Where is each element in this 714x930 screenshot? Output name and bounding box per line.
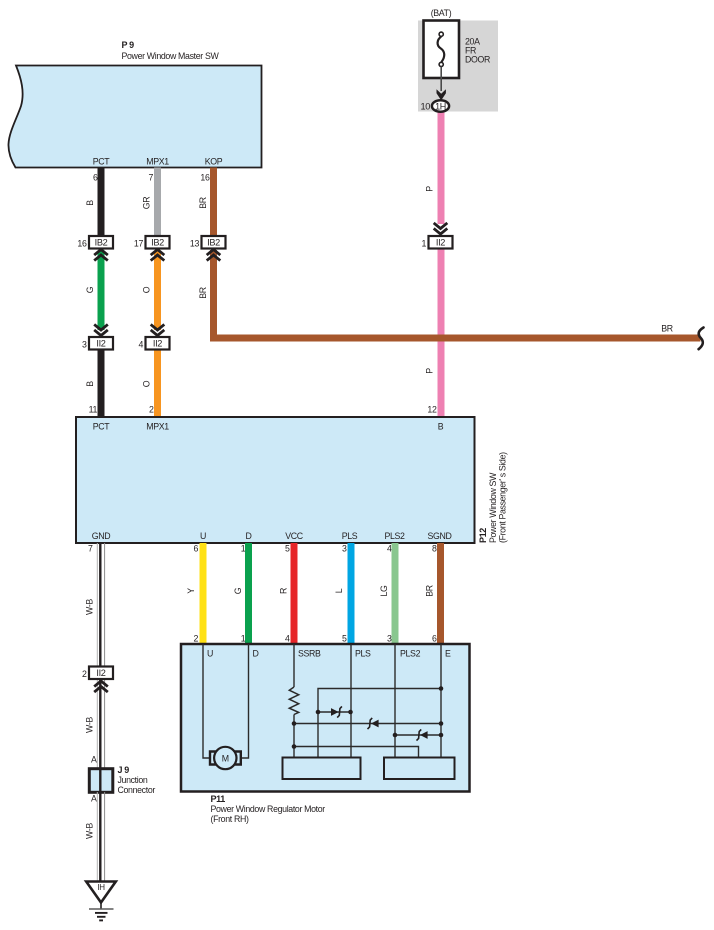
wire L blue P12 PLS to P11 PLS [348, 543, 355, 644]
svg-text:A: A [91, 794, 97, 804]
junction dot SSRB row4 [292, 744, 297, 749]
svg-text:1H: 1H [435, 101, 446, 111]
connector arrows (down chevrons) above II2 pin3 [94, 324, 108, 335]
svg-text:II2: II2 [96, 668, 105, 678]
junction dot E top [439, 686, 444, 691]
svg-text:G: G [85, 286, 95, 293]
resistor in SSRB branch [289, 687, 298, 715]
motor bracket left [210, 752, 217, 765]
svg-text:U: U [207, 649, 213, 659]
internal wire U to motor [203, 644, 210, 758]
svg-text:BR: BR [661, 324, 673, 334]
junction connector J9 box [89, 769, 113, 793]
wire BR brown P12 SGND to P11 E [437, 543, 444, 644]
svg-text:A: A [91, 755, 97, 765]
svg-text:6: 6 [193, 544, 198, 554]
svg-text:B: B [85, 200, 95, 206]
wire G green IB2 to II2 [98, 251, 105, 330]
svg-text:4: 4 [285, 634, 290, 644]
svg-text:DOOR: DOOR [465, 55, 490, 65]
internal wire E vertical [440, 644, 442, 758]
svg-text:3: 3 [387, 634, 392, 644]
junction dot diode1 right on PLS [348, 710, 353, 715]
diode D1 (zener, pointing right) [331, 706, 342, 717]
diode D3 (zener, pointing left) [417, 729, 428, 740]
motor bracket right [234, 752, 241, 765]
svg-text:MPX1: MPX1 [146, 157, 169, 167]
component P12 Power Window SW block [76, 417, 475, 543]
svg-text:E: E [445, 649, 451, 659]
svg-text:O: O [142, 380, 152, 387]
internal wire D to motor [241, 644, 249, 758]
wire G green P12 D to P11 D [245, 543, 252, 644]
fuse element S-curve [438, 37, 445, 63]
internal wire SSRB down to resistor [293, 644, 295, 687]
internal wire diode1 row [318, 711, 351, 713]
svg-text:4: 4 [387, 544, 392, 554]
connector arrows (up chevrons) below IB2 pin16 [94, 250, 108, 261]
svg-text:BR: BR [198, 197, 208, 209]
svg-text:O: O [142, 286, 152, 293]
svg-text:MPX1: MPX1 [146, 422, 169, 432]
svg-text:D: D [245, 531, 251, 541]
svg-text:W-B: W-B [85, 599, 95, 615]
connector arrows (up chevrons) below IB2 pin13 [207, 250, 221, 261]
svg-text:6: 6 [93, 173, 98, 183]
svg-text:IB2: IB2 [207, 238, 220, 248]
svg-text:II2: II2 [436, 238, 445, 248]
svg-text:PCT: PCT [93, 157, 111, 167]
wire BR brown P9 pin16 to IB2 [210, 168, 217, 238]
svg-text:16: 16 [77, 239, 87, 249]
svg-text:2: 2 [82, 669, 87, 679]
wire P pink from II2 down to P12 pin12 [438, 248, 445, 418]
svg-text:BR: BR [425, 585, 435, 597]
motor M circle [214, 747, 236, 769]
connector IB2 pin17 box [134, 236, 170, 249]
svg-text:VCC: VCC [285, 531, 304, 541]
svg-text:Power Window SW: Power Window SW [488, 472, 498, 543]
svg-text:5: 5 [285, 544, 290, 554]
wire from fuse to connector arrow [440, 67, 442, 91]
fuse terminal circle bottom [439, 62, 443, 66]
wire W-B ground branch segment 3 (J9 to ground) [97, 792, 104, 882]
svg-text:GR: GR [142, 197, 152, 210]
internal wire PLS2 vertical [394, 644, 396, 758]
svg-text:LG: LG [379, 585, 389, 597]
svg-text:5: 5 [342, 634, 347, 644]
svg-text:1: 1 [241, 634, 246, 644]
svg-text:GND: GND [92, 531, 111, 541]
svg-text:Junction: Junction [118, 775, 148, 785]
connector II2 pin3 box [82, 337, 113, 350]
svg-text:(Front RH): (Front RH) [211, 814, 249, 824]
ground point IH triangle [86, 882, 116, 903]
svg-text:17: 17 [134, 239, 144, 249]
connector arrows (down chevrons) above II2 pin4 [151, 324, 165, 335]
svg-text:KOP: KOP [205, 157, 223, 167]
wire GR gray P9 pin7 to IB2 [154, 168, 161, 238]
connector II2 pin4 box [138, 337, 169, 350]
svg-text:Power Window Master SW: Power Window Master SW [122, 51, 220, 61]
connector arrows (up chevrons) below IB2 pin17 [151, 250, 165, 261]
svg-text:P: P [425, 368, 435, 374]
junction dot E row2 [439, 721, 444, 726]
fuse 20A FR DOOR (box) [424, 21, 460, 79]
svg-text:3: 3 [82, 340, 87, 350]
wire LG light green P12 PLS2 to P11 PLS2 [392, 543, 399, 644]
internal wire top horizontal with corner down to sensor block [318, 689, 441, 759]
svg-text:M: M [222, 754, 229, 764]
svg-text:P12: P12 [478, 528, 488, 543]
ground bars [89, 908, 114, 910]
connector arrows (down chevrons) above II2 pin1 (pink) [434, 223, 448, 234]
svg-text:J 9: J 9 [118, 765, 130, 775]
svg-text:L: L [334, 588, 344, 593]
svg-text:SGND: SGND [427, 531, 451, 541]
connector II2 pin2 box [82, 667, 113, 680]
junction dot PLS2 diode3 [393, 733, 398, 738]
internal wire horizontal row2 SSRB to E [294, 723, 441, 725]
svg-text:PLS: PLS [355, 649, 371, 659]
svg-text:2: 2 [193, 634, 198, 644]
connector arrow (solid) above 1H [437, 89, 446, 100]
wire R red P12 VCC to P11 SSRB [291, 543, 298, 644]
svg-text:7: 7 [88, 544, 93, 554]
svg-text:II2: II2 [153, 339, 162, 349]
svg-text:1: 1 [421, 239, 426, 249]
svg-text:BR: BR [198, 287, 208, 299]
sensor block right [384, 758, 455, 780]
svg-text:8: 8 [432, 544, 437, 554]
svg-text:PCT: PCT [93, 422, 111, 432]
svg-text:SSRB: SSRB [298, 649, 321, 659]
diode D2 (zener, pointing left) [368, 718, 379, 729]
svg-text:U: U [200, 531, 206, 541]
internal wire PLS vertical [350, 644, 352, 758]
svg-text:11: 11 [89, 405, 98, 415]
wire B black II2 to P12 PCT [98, 349, 105, 418]
svg-text:(Front Passenger' s Side): (Front Passenger' s Side) [498, 452, 508, 543]
ground stem [100, 903, 102, 910]
wire O orange IB2 to II2 [154, 251, 161, 330]
connector 1H oval [432, 100, 449, 111]
wire O orange II2 to P12 MPX1 [154, 349, 161, 418]
wire W-B ground branch segment 1 (P12 GND to II2) [97, 543, 104, 667]
component P9 Power Window Master SW (block) [8, 66, 261, 168]
svg-text:P 9: P 9 [122, 40, 135, 50]
wire BR brown horizontal to right edge (over pink) [210, 335, 701, 342]
svg-text:W-B: W-B [85, 823, 95, 839]
svg-text:6: 6 [432, 634, 437, 644]
wire W-B ground branch segment 2 (II2 to J9) [97, 679, 104, 769]
svg-text:16: 16 [200, 173, 210, 183]
svg-text:IB2: IB2 [151, 238, 164, 248]
svg-text:PLS2: PLS2 [400, 649, 421, 659]
junction dot diode1 left [316, 710, 321, 715]
svg-text:P: P [425, 186, 435, 192]
connector IB2 pin16 box [77, 236, 113, 249]
svg-text:12: 12 [427, 405, 437, 415]
svg-text:Y: Y [186, 588, 196, 594]
svg-text:(BAT): (BAT) [431, 8, 452, 18]
wire W-B black stripe through J9 [99, 769, 101, 792]
svg-text:II2: II2 [96, 339, 105, 349]
component P11 Power Window Regulator Motor block [181, 644, 470, 792]
svg-text:10: 10 [420, 102, 430, 112]
junction block J/B shading (gray area around fuse) [418, 21, 498, 112]
svg-text:Connector: Connector [118, 785, 156, 795]
junction dot SSRB row2 [292, 721, 297, 726]
svg-text:W-B: W-B [85, 717, 95, 733]
sensor block left [283, 758, 361, 780]
internal wire SSRB resistor to sensor block [293, 715, 295, 759]
svg-text:B: B [438, 422, 444, 432]
svg-text:D: D [253, 649, 259, 659]
svg-text:PLS: PLS [342, 531, 358, 541]
svg-text:B: B [85, 381, 95, 387]
svg-text:P11: P11 [211, 794, 226, 804]
wire P pink from fuse 1H to II2 [438, 111, 445, 224]
svg-text:Power Window Regulator Motor: Power Window Regulator Motor [211, 804, 326, 814]
svg-text:IH: IH [97, 883, 105, 892]
wire Y yellow P12 U to P11 U [200, 543, 207, 644]
internal wire row4 SSRB to corner into right sensor block [294, 747, 419, 759]
svg-text:R: R [278, 588, 288, 594]
svg-text:PLS2: PLS2 [384, 531, 405, 541]
svg-text:IB2: IB2 [95, 238, 108, 248]
svg-text:7: 7 [148, 173, 153, 183]
connector II2 pin1 box (pink wire) [421, 236, 452, 249]
connector IB2 pin13 box [190, 236, 226, 249]
fuse terminal circle top [439, 32, 443, 36]
svg-text:3: 3 [342, 544, 347, 554]
continuation squiggle at right edge of BR wire [699, 328, 704, 350]
internal wire diode3 row PLS2 to E [395, 734, 441, 736]
wire B black P9 pin6 to IB2 [98, 168, 105, 238]
svg-text:2: 2 [149, 405, 154, 415]
connector arrows (up chevrons) below II2 pin2 [94, 681, 108, 692]
svg-text:4: 4 [138, 340, 143, 350]
wire BR brown vertical from IB2 down to corner [210, 250, 217, 342]
junction dot E diode3 [439, 733, 444, 738]
svg-text:G: G [233, 587, 243, 594]
svg-text:13: 13 [190, 239, 200, 249]
